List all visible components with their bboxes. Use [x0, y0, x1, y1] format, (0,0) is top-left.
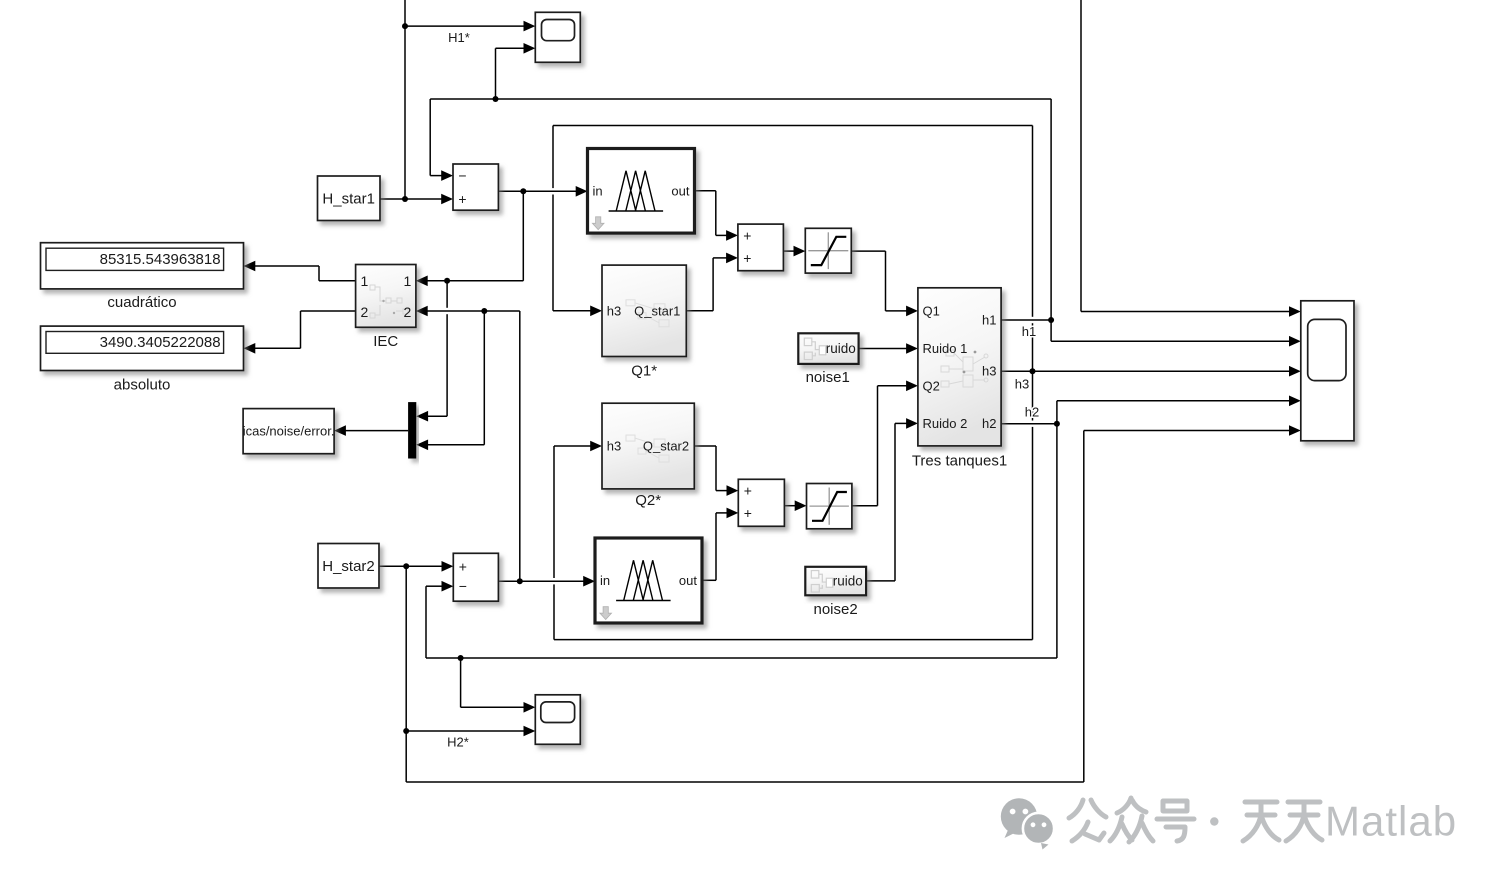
svg-text:2: 2	[361, 304, 369, 320]
wire	[716, 230, 738, 241]
subsystem Tres tanques1	[918, 288, 1001, 446]
wire	[319, 280, 356, 282]
wire	[301, 310, 356, 312]
wire	[496, 43, 536, 54]
wire	[379, 561, 453, 572]
svg-text:Tres tanques1: Tres tanques1	[912, 453, 1007, 470]
wire	[712, 258, 714, 311]
svg-text:Q_star1: Q_star1	[634, 303, 680, 318]
svg-text:in: in	[600, 573, 610, 588]
wire	[885, 251, 887, 311]
junction	[458, 655, 464, 661]
wire	[877, 386, 879, 506]
sum Sum4 (Q2+noise path)	[738, 479, 784, 526]
svg-text:−: −	[458, 168, 466, 184]
wire	[553, 446, 556, 640]
wire	[404, 0, 406, 199]
wire	[783, 246, 805, 257]
svg-text:icas/noise/error.: icas/noise/error.	[243, 424, 335, 439]
wire	[429, 99, 431, 176]
junction	[517, 578, 523, 584]
wire	[430, 170, 453, 181]
wire	[866, 580, 895, 582]
svg-text:cuadrático: cuadrático	[107, 294, 176, 311]
wire	[495, 48, 497, 99]
junction	[1048, 317, 1054, 323]
svg-text:1: 1	[404, 273, 412, 289]
wire	[416, 276, 523, 287]
svg-text:Ruido 2: Ruido 2	[923, 416, 968, 431]
svg-text:out: out	[671, 183, 689, 198]
svg-text:85315.543963818: 85315.543963818	[100, 251, 221, 268]
wire	[1084, 425, 1301, 436]
wire	[334, 425, 408, 436]
svg-text:in: in	[593, 183, 603, 198]
junction	[1030, 368, 1036, 374]
wire	[715, 513, 717, 580]
scope Scope-H2	[535, 695, 580, 745]
wire	[244, 261, 320, 272]
junction	[403, 728, 409, 734]
wire	[851, 250, 885, 252]
junction	[520, 188, 526, 194]
wire	[715, 446, 717, 491]
wire	[405, 21, 535, 32]
svg-text:h3: h3	[1015, 377, 1029, 392]
wire	[859, 343, 918, 354]
wire	[694, 445, 716, 447]
source block H_star1	[318, 176, 381, 221]
svg-text:out: out	[679, 573, 697, 588]
junction	[1054, 421, 1060, 427]
svg-text:2: 2	[404, 304, 412, 320]
wire	[1001, 366, 1301, 377]
svg-text:Matlab: Matlab	[1325, 798, 1457, 845]
wire	[406, 726, 535, 737]
subsystem Q2*	[602, 403, 694, 489]
svg-text:Ruido 1: Ruido 1	[923, 341, 968, 356]
source block H_star2	[318, 544, 379, 589]
svg-text:absoluto: absoluto	[114, 377, 171, 394]
wire	[522, 191, 524, 280]
sum Sum3 (Q1+noise path)	[738, 224, 784, 271]
wire	[886, 306, 918, 317]
svg-text:H_star2: H_star2	[322, 558, 375, 575]
svg-text:h3: h3	[607, 303, 621, 318]
svg-text:+: +	[743, 227, 751, 243]
junction	[403, 563, 409, 569]
svg-text:H2*: H2*	[447, 735, 469, 750]
display absoluto	[41, 326, 244, 370]
svg-text:H_star1: H_star1	[322, 190, 375, 207]
scope Scope-H1	[535, 12, 580, 62]
svg-text:Q2: Q2	[923, 378, 940, 393]
svg-text:+: +	[458, 191, 466, 207]
wire	[498, 576, 595, 587]
svg-text:Q1: Q1	[923, 303, 940, 318]
wire	[1050, 99, 1052, 341]
svg-text:h2: h2	[1025, 405, 1039, 420]
svg-text:h3: h3	[982, 364, 996, 379]
wire	[498, 186, 587, 197]
subsystem Q1*	[602, 265, 686, 356]
wire	[552, 126, 555, 311]
junction	[402, 23, 408, 29]
block graficas/noise/error	[243, 409, 335, 454]
svg-text:Q_star2: Q_star2	[643, 439, 689, 454]
wire	[425, 586, 427, 658]
wire	[878, 381, 918, 392]
wire	[894, 423, 896, 581]
svg-text:3490.3405222088: 3490.3405222088	[100, 334, 221, 351]
watermark wechat icon	[1001, 798, 1054, 849]
wire	[553, 125, 1033, 127]
wire	[300, 311, 302, 348]
wire	[1001, 319, 1051, 321]
wire	[416, 411, 447, 422]
sum Sum1 (H1 error)	[453, 164, 498, 210]
svg-text:−: −	[459, 578, 467, 594]
subsystem IEC	[356, 265, 416, 328]
wire	[483, 311, 485, 445]
wire	[695, 190, 716, 192]
wire	[686, 310, 713, 312]
wire	[426, 657, 1057, 659]
wire	[1080, 0, 1082, 312]
wire	[416, 440, 484, 451]
wire	[461, 702, 536, 713]
mux Mux	[408, 402, 416, 458]
wire	[1031, 126, 1034, 640]
wire	[713, 253, 738, 264]
wire	[244, 343, 301, 354]
wire	[446, 281, 449, 416]
wire	[715, 191, 717, 236]
noise source noise2	[805, 567, 866, 596]
svg-text:h1: h1	[1022, 324, 1036, 339]
svg-text:+: +	[744, 483, 752, 499]
wire	[1057, 396, 1301, 407]
wire	[1056, 401, 1058, 658]
svg-text:+: +	[744, 505, 752, 521]
svg-text:H1*: H1*	[448, 30, 470, 45]
svg-text:noise2: noise2	[813, 601, 857, 618]
junction	[481, 308, 487, 314]
wire	[318, 266, 320, 281]
wire	[716, 485, 738, 496]
wire	[553, 306, 602, 317]
wire	[852, 505, 878, 507]
svg-text:1: 1	[361, 273, 369, 289]
watermark text	[1069, 798, 1322, 842]
sum Sum2 (H2 error)	[453, 553, 498, 601]
wire	[1051, 336, 1301, 347]
wire	[426, 581, 453, 592]
wire	[1083, 431, 1085, 783]
wire	[716, 508, 738, 519]
wire	[554, 639, 1033, 641]
wire	[554, 441, 602, 452]
svg-text:IEC: IEC	[373, 333, 398, 350]
wire	[380, 194, 453, 205]
junction	[493, 96, 499, 102]
svg-text:h1: h1	[982, 313, 996, 328]
saturation Saturation1	[805, 228, 851, 273]
wire	[895, 418, 918, 429]
svg-text:ruido: ruido	[833, 574, 863, 589]
svg-text:noise1: noise1	[806, 369, 850, 386]
wire	[519, 311, 521, 581]
wire	[406, 781, 1084, 783]
junction	[402, 196, 408, 202]
wire	[702, 579, 716, 581]
wire	[416, 306, 520, 317]
wire	[430, 98, 1051, 100]
junction	[444, 278, 450, 284]
svg-text:Q1*: Q1*	[631, 363, 657, 380]
fuzzy controller FLC2	[595, 538, 702, 623]
scope Scope main	[1301, 301, 1354, 441]
display cuadratico	[41, 243, 244, 289]
svg-text:h3: h3	[607, 439, 621, 454]
noise source noise1	[798, 333, 858, 364]
wire	[1081, 306, 1301, 317]
wire	[784, 500, 806, 511]
wire	[460, 658, 462, 707]
svg-text:+: +	[459, 558, 467, 574]
svg-text:h2: h2	[982, 416, 996, 431]
fuzzy controller FLC1	[588, 149, 695, 234]
svg-text:ruido: ruido	[826, 341, 856, 356]
saturation Saturation2	[807, 484, 852, 529]
wire	[1001, 423, 1057, 425]
wire	[405, 566, 407, 782]
svg-text:+: +	[743, 250, 751, 266]
svg-text:Q2*: Q2*	[635, 492, 661, 509]
